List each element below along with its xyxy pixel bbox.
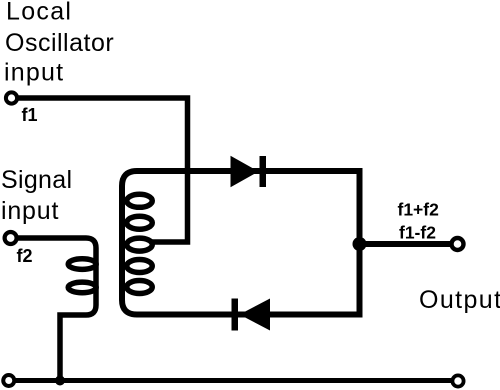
svg-text:f1+f2: f1+f2	[398, 199, 440, 219]
svg-text:f1-f2: f1-f2	[399, 222, 436, 242]
svg-text:Oscillator: Oscillator	[5, 29, 114, 57]
svg-text:input: input	[4, 59, 64, 87]
svg-text:input: input	[1, 197, 59, 225]
svg-text:Signal: Signal	[1, 166, 72, 194]
svg-text:Local: Local	[6, 0, 72, 26]
svg-text:f2: f2	[17, 246, 33, 266]
svg-text:Output: Output	[419, 286, 500, 314]
svg-text:f1: f1	[22, 105, 38, 125]
